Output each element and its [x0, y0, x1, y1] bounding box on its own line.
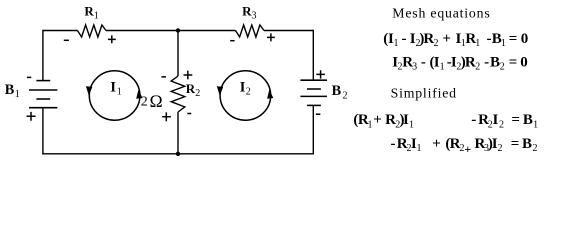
svg-text:B1: B1	[5, 82, 20, 100]
wire right upper segment	[312, 30, 314, 80]
wire right lower segment	[312, 105, 314, 153]
resistor R1	[78, 25, 107, 37]
mesh current loop I1	[86, 71, 142, 120]
battery B2	[300, 80, 327, 105]
B2 minus polarity	[316, 113, 321, 115]
svg-text:R3: R3	[242, 4, 256, 22]
wire left lower segment	[42, 108, 44, 155]
wire top-right segment	[264, 30, 313, 32]
node junction bottom	[176, 152, 180, 156]
battery B1	[29, 81, 57, 108]
R1 minus polarity	[64, 39, 69, 41]
mesh current loop I2	[217, 71, 273, 120]
resistor R3	[236, 25, 265, 37]
R1 plus polarity	[108, 35, 116, 43]
wire middle lower segment	[177, 112, 179, 154]
svg-text:R2: R2	[186, 81, 200, 99]
R2 left minus polarity	[161, 76, 166, 78]
B1 plus polarity	[27, 112, 36, 121]
svg-text:Mesh equations: Mesh equations	[392, 5, 490, 20]
R2 left plus polarity	[162, 112, 171, 121]
svg-text:I2: I2	[240, 80, 251, 98]
B2 plus polarity	[316, 70, 325, 78]
resistor R2	[171, 76, 185, 112]
wire left upper segment	[42, 30, 44, 81]
R3 plus polarity	[267, 33, 275, 41]
svg-text:B2: B2	[332, 83, 348, 101]
R2 right plus polarity	[184, 71, 193, 80]
R3 minus polarity	[230, 40, 234, 42]
svg-text:-R2I1+(R2+R3)I2=B2: -R2I1+(R2+R3)I2=B2	[391, 136, 538, 156]
R2 right minus polarity	[187, 113, 191, 115]
svg-text:Ω: Ω	[149, 91, 162, 111]
svg-text:(R1+R2)I1-R2I2=B1: (R1+R2)I1-R2I2=B1	[353, 112, 538, 130]
svg-text:R1: R1	[84, 3, 98, 21]
wire top-middle segment	[106, 30, 236, 32]
wire middle upper segment	[177, 31, 179, 77]
svg-text:I2R3-(I1-I2)R2-B2=0: I2R3-(I1-I2)R2-B2=0	[392, 54, 528, 72]
B1 minus polarity	[27, 76, 31, 78]
svg-text:(I1-I2)R2+I1R1-B1=0: (I1-I2)R2+I1R1-B1=0	[383, 31, 528, 49]
svg-text:I1: I1	[110, 80, 121, 98]
node junction top	[176, 28, 180, 32]
svg-text:Simplified: Simplified	[391, 86, 457, 101]
wire bottom segment	[42, 153, 314, 155]
wire top-left segment	[43, 30, 78, 32]
